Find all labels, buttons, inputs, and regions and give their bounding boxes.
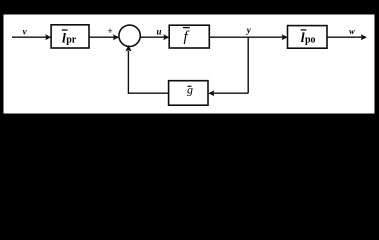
svg-text:pr: pr <box>66 35 77 46</box>
wire: feedback right horizontal into g block <box>208 90 248 96</box>
svg-text:po: po <box>305 34 316 45</box>
wire: f block to lpo block <box>209 34 287 40</box>
summing junction circle <box>119 25 140 46</box>
svg-text:g: g <box>187 83 193 97</box>
block f-bar <box>169 25 209 48</box>
wire: output w arrow <box>327 34 367 40</box>
wire: junction to f block <box>140 34 169 40</box>
wire: feedback left vertical up into junction <box>125 45 131 94</box>
block L-bar pr <box>51 25 89 48</box>
scan black surround <box>0 0 379 134</box>
svg-text:w: w <box>349 26 355 36</box>
wire: g block left to corner <box>128 92 168 94</box>
wire: branch from y down <box>247 37 249 93</box>
wire: input v arrow <box>12 34 51 40</box>
block g-bar <box>169 81 208 106</box>
svg-text:u: u <box>156 26 161 36</box>
block L-bar po <box>288 26 328 49</box>
wire: block1 to summing junction <box>89 34 119 40</box>
white figure area <box>4 15 375 114</box>
svg-text:+: + <box>108 26 113 36</box>
